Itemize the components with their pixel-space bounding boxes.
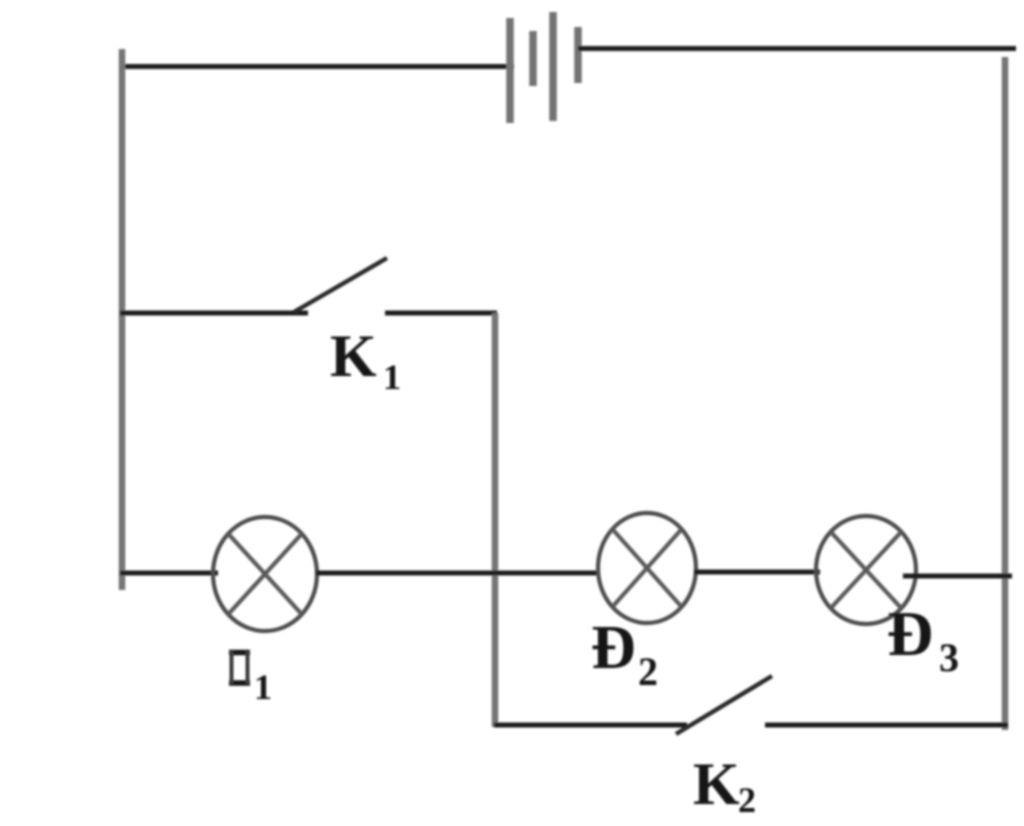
lamp D3 cross — [831, 532, 902, 608]
svg-text:Đ: Đ — [887, 598, 933, 669]
lamp D3 circle — [816, 516, 916, 624]
battery cell plate 4 (short) — [574, 27, 582, 83]
wire lamp row: left rail to D1 — [120, 571, 218, 576]
lamp D1 circle — [213, 517, 317, 631]
wire top-right horizontal — [578, 46, 1016, 51]
wire K2 bottom left segment — [494, 723, 687, 728]
switch K2 blade — [676, 676, 772, 734]
wire K2 bottom right segment — [765, 723, 1008, 728]
lamp D2 cross — [612, 529, 681, 607]
svg-text:2: 2 — [638, 649, 658, 694]
svg-text:3: 3 — [939, 635, 959, 680]
wire right rail vertical — [1002, 57, 1009, 730]
wire K1 branch right segment — [385, 311, 497, 316]
label D1 (missing glyph box) — [229, 653, 250, 684]
svg-text:1: 1 — [383, 357, 401, 397]
lamp D1 cross — [228, 534, 302, 615]
wire K1 branch left segment — [120, 311, 308, 316]
battery cell plate 3 (long) — [549, 12, 557, 121]
wire lamp row: D2 to D3 — [694, 570, 820, 575]
wire top-left horizontal — [120, 64, 514, 69]
svg-text:2: 2 — [738, 780, 756, 820]
lamp D2 circle — [598, 513, 696, 623]
wire K1 vertical drop — [492, 313, 499, 727]
svg-text:Đ: Đ — [591, 614, 636, 682]
wire lamp row: D1 to D2 — [316, 571, 600, 576]
battery cell plate 1 (long) — [506, 18, 514, 123]
svg-text:K: K — [330, 323, 377, 389]
wire left rail vertical — [119, 49, 126, 590]
battery cell plate 2 (short) — [529, 31, 537, 86]
wire lamp row: D3 to right rail — [903, 574, 1012, 579]
svg-text:1: 1 — [254, 667, 272, 707]
svg-text:K: K — [693, 751, 740, 817]
switch K1 blade — [294, 258, 387, 312]
